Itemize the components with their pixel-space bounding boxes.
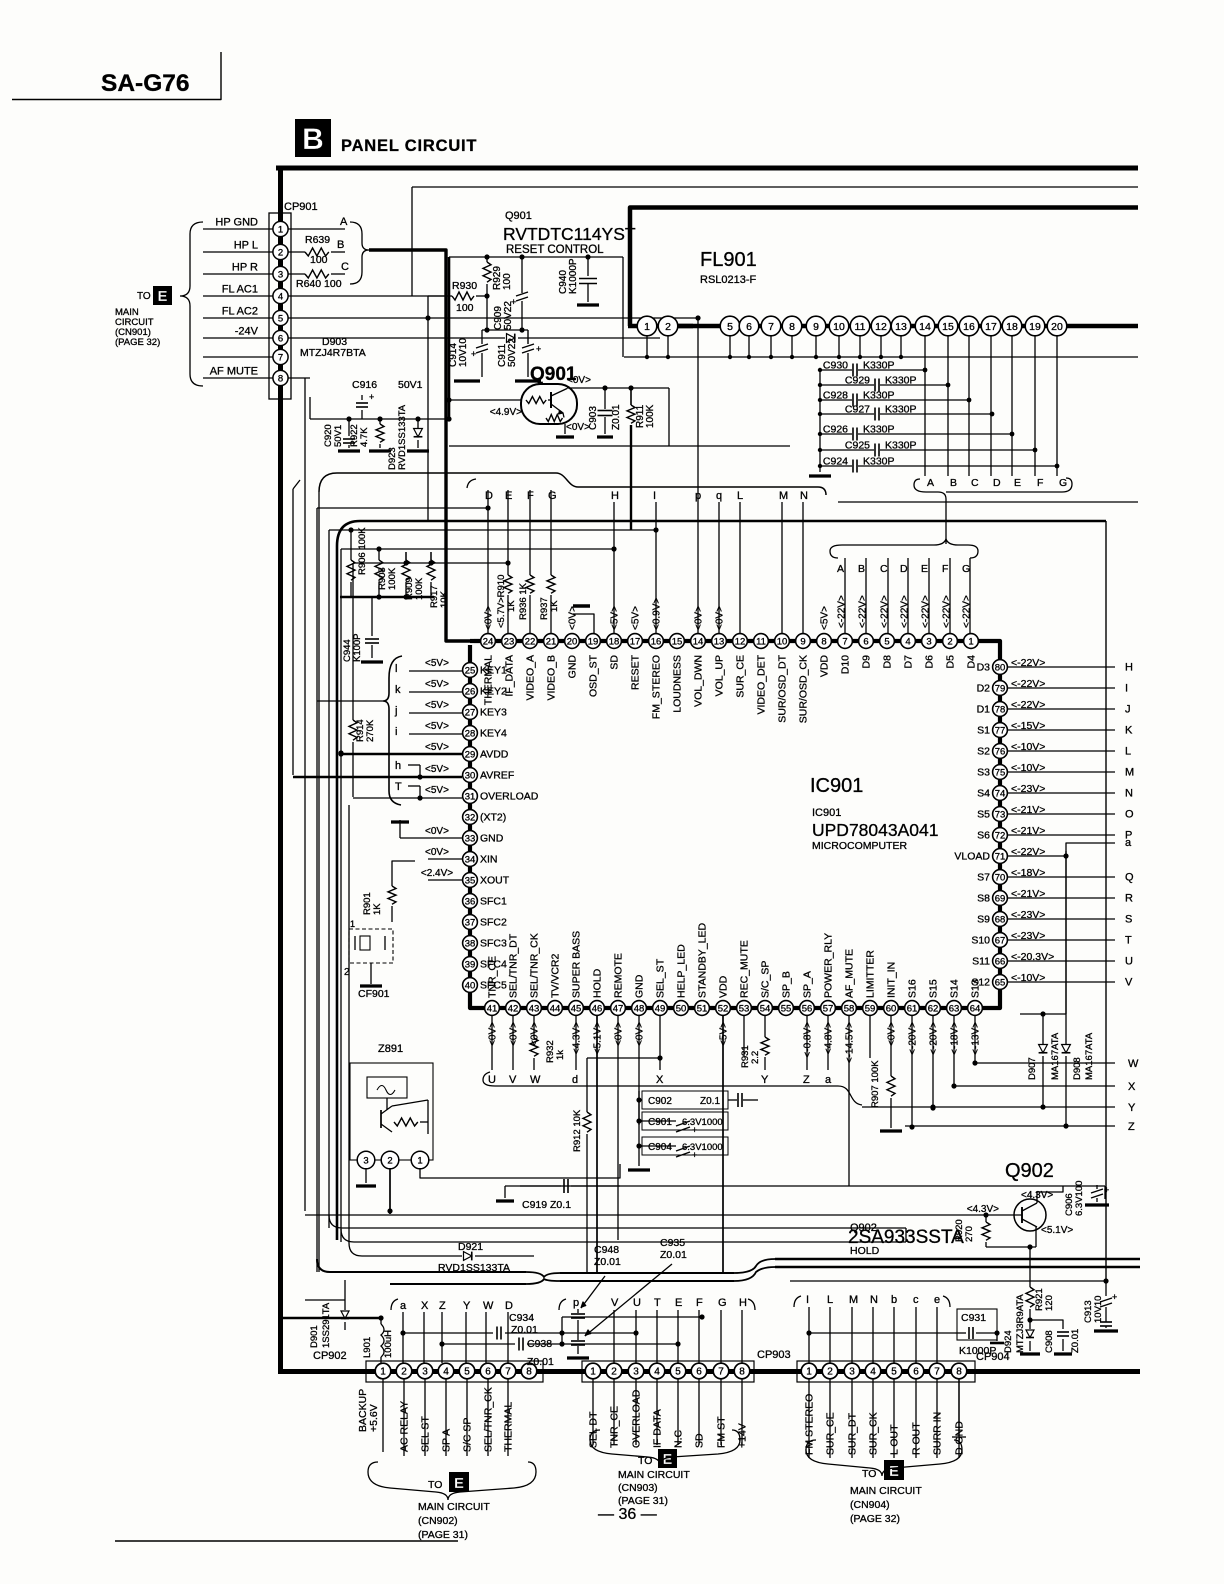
svg-text:13: 13 (895, 321, 907, 333)
svg-text:E: E (157, 288, 167, 305)
svg-text:10: 10 (777, 636, 788, 647)
component Z891 (350, 1043, 433, 1169)
svg-text:2: 2 (947, 636, 952, 647)
connector CP903 pins (585, 1363, 750, 1379)
connector CP904 label (976, 1351, 1010, 1363)
svg-text:D: D (485, 490, 493, 502)
svg-text:S/C_SP: S/C_SP (760, 961, 772, 998)
svg-text:<5V>: <5V> (425, 785, 449, 796)
svg-text:7: 7 (842, 636, 847, 647)
svg-text:6.3V1000: 6.3V1000 (682, 1142, 723, 1153)
svg-text:H: H (1125, 662, 1133, 674)
svg-text:19: 19 (588, 636, 599, 647)
section marker B (295, 119, 331, 157)
svg-text:RESET CONTROL: RESET CONTROL (506, 244, 604, 256)
svg-text:RSL0213-F: RSL0213-F (700, 274, 757, 286)
svg-text:1: 1 (350, 919, 355, 929)
svg-text:VIDEO_A: VIDEO_A (525, 655, 537, 701)
wire FL901 pin common row (624, 336, 903, 359)
svg-text:A: A (927, 477, 934, 489)
svg-text:W: W (530, 1074, 541, 1086)
connector CP903 label (757, 1349, 791, 1361)
svg-text:+: + (471, 349, 476, 359)
wire pin45 d (572, 1016, 578, 1086)
svg-text:76: 76 (995, 746, 1006, 757)
CP903 letters above (611, 1297, 747, 1363)
svg-text:<0V>: <0V> (488, 1022, 499, 1046)
wire pin42 V (509, 1016, 517, 1086)
svg-text:1K: 1K (549, 600, 560, 612)
svg-text:<-20V>: <-20V> (908, 1022, 919, 1055)
svg-text:Z891: Z891 (378, 1043, 403, 1055)
resistor R912 (572, 1058, 591, 1273)
svg-text:A: A (340, 216, 348, 228)
svg-text:27: 27 (465, 707, 476, 718)
svg-text:C904: C904 (648, 1142, 672, 1153)
brace CP903 (590, 1430, 740, 1465)
svg-text:B: B (337, 239, 344, 251)
IC901 name block (810, 775, 938, 852)
wire c90x common (628, 1091, 650, 1170)
svg-text:6: 6 (696, 1367, 702, 1378)
svg-text:M: M (1125, 767, 1134, 779)
connector CP902 box (366, 1361, 543, 1382)
wire mesh h563 (353, 562, 508, 564)
svg-text:9: 9 (813, 321, 819, 333)
svg-text:R: R (1125, 893, 1133, 905)
wire bundle v349 (348, 805, 350, 1243)
svg-text:N: N (1125, 788, 1133, 800)
capacitor C901 (636, 1112, 728, 1135)
svg-text:Y: Y (463, 1300, 471, 1312)
IC901 outline (470, 641, 1000, 1008)
svg-text:50: 50 (676, 1003, 687, 1014)
svg-text:68: 68 (995, 914, 1006, 925)
letters group curls (391, 1296, 950, 1310)
svg-text:4: 4 (905, 636, 910, 647)
resistor R901 (362, 880, 396, 922)
svg-text:VLOAD: VLOAD (954, 851, 990, 863)
svg-text:D921: D921 (458, 1241, 483, 1253)
title SA-G76 (101, 70, 190, 97)
label TO E MAIN CIRCUIT CN901 (115, 286, 172, 348)
wire X row (954, 1081, 1136, 1093)
diode D908 (1062, 1014, 1095, 1127)
IC901 left pins 25-40 (463, 663, 478, 993)
svg-text:10K: 10K (439, 590, 450, 608)
diode D924 (1003, 1294, 1040, 1354)
CP904 letters above (806, 1294, 940, 1363)
svg-text:<0V>: <0V> (567, 375, 591, 386)
resistor R910 (496, 490, 517, 633)
svg-text:E: E (454, 1475, 464, 1492)
connector CP902 pin labels (357, 1379, 515, 1456)
svg-text:(CN902): (CN902) (418, 1515, 458, 1527)
svg-text:i: i (395, 726, 397, 738)
svg-text:5: 5 (884, 636, 889, 647)
wire pin59 down (869, 1016, 871, 1058)
wire pin49 X (656, 1016, 664, 1086)
resistor R930 (425, 280, 489, 520)
svg-text:77: 77 (995, 725, 1006, 736)
svg-text:<4.3V>: <4.3V> (572, 1022, 583, 1054)
wire pin61 down (909, 1016, 914, 1130)
svg-text:D3: D3 (977, 662, 991, 674)
capacitor C940 (558, 257, 599, 305)
svg-text:E: E (889, 1463, 899, 1480)
bus pair left (317, 1259, 526, 1284)
svg-text:79: 79 (995, 683, 1006, 694)
wire collector corner (449, 388, 790, 446)
svg-text:h: h (395, 760, 401, 772)
diode D923 (387, 404, 429, 470)
svg-text:55: 55 (781, 1003, 792, 1014)
svg-text:Q: Q (1125, 872, 1134, 884)
svg-text:<0V>: <0V> (694, 606, 705, 630)
svg-text:47: 47 (613, 1003, 624, 1014)
svg-text:S15: S15 (928, 979, 940, 998)
svg-text:<0V>: <0V> (509, 1022, 520, 1046)
wire bundle v341 (338, 549, 343, 1242)
svg-text:8: 8 (526, 1367, 532, 1378)
svg-text:OVERLOAD: OVERLOAD (480, 791, 539, 803)
wire pin46 down (596, 1016, 598, 1273)
wire pin57 down (825, 1016, 832, 1086)
svg-text:20: 20 (567, 636, 578, 647)
svg-text:2: 2 (278, 247, 283, 258)
svg-text:p: p (695, 490, 701, 502)
svg-text:CP902: CP902 (313, 1350, 347, 1362)
svg-text:S11: S11 (972, 956, 990, 968)
wire hbus base 1215 (305, 1212, 1004, 1217)
svg-text:SP_B: SP_B (781, 971, 793, 998)
svg-text:V: V (509, 1074, 517, 1086)
svg-text:L: L (827, 1294, 833, 1306)
IC901 top pin names (483, 654, 978, 723)
svg-text:C930: C930 (823, 360, 848, 372)
CP901 left pin labels (203, 217, 273, 379)
svg-text:11: 11 (756, 636, 766, 647)
Z891 ground (356, 1169, 376, 1186)
wire mesh h508 (317, 505, 491, 510)
svg-text:41: 41 (487, 1003, 498, 1014)
svg-text:18: 18 (609, 636, 620, 647)
capacitor C920 (323, 419, 360, 451)
svg-text:E: E (675, 1297, 682, 1309)
svg-text:H: H (611, 490, 619, 502)
Z891 pin2 wire (387, 1169, 392, 1214)
svg-text:52: 52 (718, 1003, 729, 1014)
svg-text:S3: S3 (977, 767, 990, 779)
display FL901 box (628, 208, 1138, 327)
wire cp903 G link (562, 1314, 705, 1344)
svg-text:q: q (716, 490, 722, 502)
svg-text:K: K (1125, 725, 1133, 737)
svg-text:KEY3: KEY3 (480, 707, 507, 719)
svg-text:<-13V>: <-13V> (971, 1022, 982, 1055)
svg-text:U: U (1125, 956, 1133, 968)
svg-text:K330P: K330P (885, 404, 917, 416)
svg-text:50V1: 50V1 (398, 379, 423, 391)
svg-text:Z0.01: Z0.01 (660, 1249, 687, 1261)
brace FL A-G (914, 478, 1072, 544)
wire bundle v319 (318, 492, 320, 1272)
svg-text:K330P: K330P (863, 456, 895, 468)
svg-text:SEL_ST: SEL_ST (655, 958, 667, 998)
svg-text:50V1: 50V1 (333, 425, 344, 447)
svg-text:VOL_DWN: VOL_DWN (693, 655, 705, 707)
bus neck1 (526, 1272, 560, 1284)
svg-text:+: + (1104, 1185, 1109, 1195)
wire h1280 (790, 1278, 1109, 1283)
svg-text:D8: D8 (882, 655, 894, 669)
svg-text:VIDEO_B: VIDEO_B (546, 655, 558, 701)
svg-text:FL AC1: FL AC1 (222, 284, 258, 296)
svg-text:KEY1: KEY1 (480, 665, 507, 677)
svg-text:FM_STEREO: FM_STEREO (651, 655, 663, 719)
labels FL A-G (927, 477, 1067, 489)
svg-text:15: 15 (672, 636, 683, 647)
svg-text:SUPER BASS: SUPER BASS (571, 931, 583, 998)
svg-text:HP L: HP L (234, 240, 258, 252)
svg-text:<0V>: <0V> (425, 847, 449, 858)
label TO E CN904 (850, 1460, 922, 1525)
svg-text:<-22V>: <-22V> (858, 595, 869, 628)
svg-text:C916: C916 (352, 379, 377, 391)
svg-text:C928: C928 (823, 390, 848, 402)
svg-text:KEY2: KEY2 (480, 686, 507, 698)
svg-text:16: 16 (963, 321, 975, 333)
labels bus letters D-N (485, 490, 808, 502)
wire pin63 down (951, 1016, 956, 1089)
svg-text:<0V>: <0V> (887, 1022, 898, 1046)
diode D921 (349, 1241, 534, 1274)
svg-text:66: 66 (995, 956, 1006, 967)
svg-text:<2.4V>: <2.4V> (421, 868, 453, 879)
svg-text:C: C (971, 477, 979, 489)
svg-text:5: 5 (727, 321, 733, 333)
svg-text:73: 73 (995, 809, 1006, 820)
IC901 bottom pin names (487, 923, 982, 998)
svg-text:Z0.1: Z0.1 (700, 1096, 720, 1107)
svg-text:D6: D6 (924, 655, 936, 669)
svg-text:Q901: Q901 (505, 210, 532, 222)
svg-text:19: 19 (1029, 321, 1041, 333)
connector CP902 pins (375, 1363, 537, 1379)
wire hbus 1242 (341, 1229, 906, 1242)
svg-text:A: A (837, 563, 844, 575)
wires KEY1-4 (394, 663, 462, 738)
svg-text:D: D (900, 563, 908, 575)
svg-text:R930: R930 (452, 280, 477, 292)
svg-text:S9: S9 (977, 914, 990, 926)
wire sweep DEFG (319, 473, 826, 495)
svg-text:74: 74 (995, 788, 1006, 799)
svg-text:S8: S8 (977, 893, 990, 905)
svg-text:— 36 —: — 36 — (598, 1506, 657, 1523)
svg-text:Z: Z (439, 1300, 446, 1312)
connector CP901 pins 1-8 (273, 221, 288, 385)
svg-text:C925: C925 (845, 440, 870, 452)
page border bottom (278, 1369, 1140, 1374)
bus pair right (775, 1259, 1140, 1267)
svg-text:GND: GND (634, 974, 646, 998)
svg-text:SFC2: SFC2 (480, 917, 507, 929)
svg-text:51: 51 (697, 1003, 708, 1014)
wire backup feed (283, 1317, 381, 1320)
svg-text:67: 67 (995, 935, 1006, 946)
svg-text:S1: S1 (977, 725, 990, 737)
svg-text:2: 2 (401, 1367, 407, 1378)
svg-text:SUR_CE: SUR_CE (735, 655, 747, 698)
svg-text:N: N (870, 1294, 878, 1306)
wire XIN (428, 858, 462, 860)
svg-text:HOLD: HOLD (592, 968, 604, 998)
svg-text:T: T (654, 1297, 661, 1309)
svg-text:D7: D7 (903, 655, 915, 669)
svg-text:B: B (950, 477, 957, 489)
capacitor C906 (1064, 1181, 1109, 1216)
wire pin52 down (722, 1016, 724, 1273)
IC901 right pin names (954, 662, 990, 989)
svg-text:IC901: IC901 (812, 807, 841, 819)
svg-text:7: 7 (278, 352, 283, 363)
svg-text:54: 54 (760, 1003, 771, 1014)
svg-text:18: 18 (1006, 321, 1018, 333)
svg-text:28: 28 (465, 728, 476, 739)
svg-text:1K: 1K (506, 600, 517, 612)
svg-text:K1000P: K1000P (568, 258, 579, 294)
svg-text:PANEL CIRCUIT: PANEL CIRCUIT (341, 137, 477, 155)
IC901 left pin names (480, 665, 539, 992)
svg-text:REC_MUTE: REC_MUTE (739, 940, 751, 998)
capacitor C938 (439, 1338, 680, 1369)
svg-text:<4.3V>: <4.3V> (967, 1204, 999, 1215)
wire h1058 (587, 1057, 660, 1059)
svg-text:8: 8 (278, 373, 283, 384)
svg-text:1SS291TA: 1SS291TA (321, 1302, 332, 1348)
svg-text:2: 2 (827, 1367, 833, 1378)
svg-text:72: 72 (995, 830, 1006, 841)
svg-text:(PAGE 32): (PAGE 32) (850, 1513, 900, 1525)
svg-text:<5V>: <5V> (820, 606, 831, 630)
capacitor C931 (955, 1309, 1004, 1357)
svg-text:R639: R639 (305, 234, 330, 246)
svg-text:37: 37 (465, 917, 476, 928)
svg-text:C931: C931 (961, 1312, 986, 1324)
wire xout link (392, 861, 415, 880)
svg-text:INIT_IN: INIT_IN (886, 962, 898, 998)
svg-text:5: 5 (464, 1367, 470, 1378)
capacitor C919 (496, 1179, 620, 1211)
wire AVDD (338, 751, 462, 756)
label Q902 type (848, 1222, 964, 1257)
wire XOUT (415, 861, 462, 880)
svg-text:SUR/OSD_CK: SUR/OSD_CK (798, 655, 810, 723)
page border top (276, 166, 1138, 171)
svg-text:R912 10K: R912 10K (572, 1109, 583, 1152)
svg-text:10V10: 10V10 (458, 338, 469, 367)
wire FL AC2 (288, 315, 701, 502)
svg-text:B: B (302, 123, 324, 156)
wire keys feed (317, 700, 383, 702)
capacitor C916 labels (352, 379, 423, 391)
svg-text:KEY4: KEY4 (480, 728, 507, 740)
wire q902 collector top (1037, 1186, 1063, 1203)
page number (598, 1506, 657, 1523)
wire AVREF (293, 760, 462, 780)
resistor R914 (349, 719, 376, 742)
svg-text:56: 56 (802, 1003, 813, 1014)
svg-text:D924: D924 (1003, 1330, 1014, 1353)
svg-text:<-0.8V>: <-0.8V> (803, 1022, 814, 1058)
svg-text:<-22V>: <-22V> (921, 595, 932, 628)
svg-text:49: 49 (655, 1003, 666, 1014)
wires FL901 pins14-20 down (925, 336, 1057, 476)
CP901 left brace (180, 222, 203, 386)
wire a vertical (1065, 851, 1067, 1014)
svg-text:100K: 100K (387, 567, 398, 590)
capacitor C903 (588, 388, 622, 437)
svg-text:<5V>: <5V> (425, 658, 449, 669)
svg-text:C935: C935 (660, 1237, 685, 1249)
svg-text:100: 100 (310, 254, 328, 266)
wire row 419 (310, 397, 452, 422)
svg-text:MA167ATA: MA167ATA (1050, 1032, 1061, 1080)
svg-text:TO: TO (137, 291, 151, 302)
svg-text:(CN904): (CN904) (850, 1499, 890, 1511)
svg-text:80: 80 (995, 662, 1006, 673)
footer rule (115, 1540, 458, 1542)
diode D907 (1027, 1014, 1061, 1108)
svg-text:50V22: 50V22 (507, 338, 518, 367)
label TO E CN902 (418, 1472, 490, 1541)
svg-text:8: 8 (789, 321, 795, 333)
svg-text:36: 36 (465, 896, 476, 907)
svg-text:1k: 1k (555, 1050, 566, 1060)
wire mesh h549 (341, 546, 617, 551)
svg-text:270: 270 (964, 1226, 975, 1242)
svg-text:<-22V>: <-22V> (900, 595, 911, 628)
svg-text:1: 1 (380, 1367, 386, 1378)
svg-text:9: 9 (800, 636, 805, 647)
svg-text:8: 8 (956, 1367, 962, 1378)
wire pin58 down (848, 1016, 850, 1186)
svg-text:W: W (1128, 1058, 1139, 1070)
svg-text:Z: Z (803, 1074, 810, 1086)
svg-text:C924: C924 (823, 456, 848, 468)
svg-text:S4: S4 (977, 788, 990, 800)
svg-text:S: S (1125, 914, 1132, 926)
svg-text:GND: GND (567, 655, 579, 679)
capacitors C924-C930 ladder (809, 360, 1059, 477)
svg-text:M: M (779, 490, 788, 502)
capacitor C916 sym (356, 392, 374, 419)
svg-text:MAIN CIRCUIT: MAIN CIRCUIT (418, 1501, 490, 1513)
wire OVERLOAD (353, 781, 462, 801)
svg-text:POWER_RLY: POWER_RLY (823, 933, 835, 998)
svg-text:5: 5 (891, 1367, 897, 1378)
svg-text:V: V (611, 1297, 619, 1309)
svg-text:70: 70 (995, 872, 1006, 883)
svg-text:V: V (1125, 977, 1133, 989)
svg-text:<5V>: <5V> (610, 606, 621, 630)
svg-text:T: T (1125, 935, 1132, 947)
svg-text:HELP_LED: HELP_LED (676, 944, 688, 998)
capacitor C908 (1030, 1320, 1081, 1354)
svg-text:15: 15 (942, 321, 954, 333)
svg-text:D2: D2 (977, 683, 991, 695)
